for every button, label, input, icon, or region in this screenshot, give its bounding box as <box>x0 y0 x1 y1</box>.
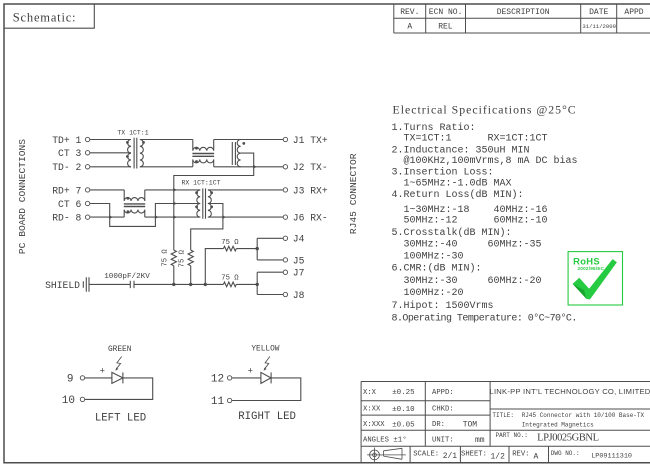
wire L2 to T3 top <box>145 189 200 191</box>
wire D1 cathode loop to pin10 <box>85 378 153 400</box>
svg-text:DWG NO.:: DWG NO.: <box>551 450 580 457</box>
svg-text:Schematic:: Schematic: <box>13 10 77 24</box>
svg-text:75 Ω: 75 Ω <box>179 249 187 267</box>
svg-text:RD+ 7: RD+ 7 <box>52 185 81 196</box>
transformer T3 (RX 1CT:1CT) <box>195 188 213 218</box>
pin 8 (RD-) <box>52 213 90 224</box>
pin J8 <box>283 290 304 301</box>
projection symbol <box>367 448 406 463</box>
svg-text:1~65MHz:-1.0dB MAX: 1~65MHz:-1.0dB MAX <box>404 178 512 190</box>
svg-text:J5: J5 <box>293 255 305 266</box>
svg-text:4.Return Loss(dB MIN):: 4.Return Loss(dB MIN): <box>392 189 524 201</box>
crossover CT wire over R1 net <box>173 202 176 206</box>
RoHS logo <box>568 252 622 305</box>
pin J3 <box>283 185 328 196</box>
svg-text:YELLOW: YELLOW <box>251 345 279 353</box>
svg-text:LINK-PP INT’L TECHNOLOGY CO, L: LINK-PP INT’L TECHNOLOGY CO, LIMITED <box>489 387 650 396</box>
svg-text:6.CMR:(dB MIN):: 6.CMR:(dB MIN): <box>392 263 482 275</box>
wire R3 to J4/J5 fork <box>236 248 257 250</box>
D1 emission arrow <box>115 357 121 371</box>
svg-text:±0.05: ±0.05 <box>392 421 415 429</box>
svg-text:9: 9 <box>67 374 74 386</box>
svg-text:31/11/2009: 31/11/2009 <box>582 23 616 30</box>
svg-text:X:X: X:X <box>363 389 377 397</box>
svg-text:GREEN: GREEN <box>108 346 132 354</box>
crossover bottom wire over pin6 riser <box>155 215 158 219</box>
svg-text:J4: J4 <box>293 234 305 245</box>
svg-text:SCALE:: SCALE: <box>413 451 439 459</box>
wire pin12 to D2 anode <box>232 377 261 379</box>
svg-text:A: A <box>407 23 412 32</box>
svg-text:75 Ω: 75 Ω <box>221 239 239 247</box>
wire shield net <box>134 283 223 285</box>
svg-text:DR:: DR: <box>432 421 445 429</box>
svg-text:+: + <box>248 366 253 376</box>
wire fork to J4 and J5 <box>257 238 283 260</box>
resistor R1 75ohm <box>171 250 176 266</box>
wire fork to J7 and J8 <box>257 272 283 294</box>
svg-text:100MHz:-20: 100MHz:-20 <box>404 288 464 299</box>
svg-text:J6 RX-: J6 RX- <box>293 213 328 224</box>
svg-text:30MHz:-30 60MHz:-20: 30MHz:-30 60MHz:-20 <box>404 276 542 287</box>
wire pin6 jog to T3 center tap <box>90 204 200 227</box>
wire pin1 to T1 <box>90 139 131 141</box>
svg-text:1000pF/2KV: 1000pF/2KV <box>104 273 150 281</box>
svg-text:2002/95/EC: 2002/95/EC <box>578 266 605 271</box>
wire pin3 to T1 center tap <box>90 152 131 154</box>
svg-text:DESCRIPTION: DESCRIPTION <box>497 8 550 17</box>
pin J5 <box>283 255 304 266</box>
svg-text:A: A <box>534 452 539 461</box>
svg-text:DATE: DATE <box>589 8 608 17</box>
crossover T2-CT over J2 wire <box>253 165 256 169</box>
pin J4 <box>283 234 304 245</box>
resistor R3 75ohm <box>223 246 236 251</box>
svg-text:50MHz:-12 60MHz:-10: 50MHz:-12 60MHz:-10 <box>404 216 548 227</box>
svg-text:SHIELD: SHIELD <box>45 280 80 291</box>
pin 3 (CT) <box>58 148 90 159</box>
svg-text:TD- 2: TD- 2 <box>52 162 81 173</box>
common-mode choke L1 (TX) <box>192 140 214 167</box>
svg-text:J2 TX-: J2 TX- <box>293 162 328 173</box>
junction fork J7/J8 <box>256 283 259 286</box>
wire L1 to J1 (TX+ net) <box>214 139 284 141</box>
pin 1 (TD+) <box>52 135 90 146</box>
wire pin9 to D1 anode <box>85 377 112 379</box>
choke T2 phase dot <box>242 142 245 145</box>
pin J2 <box>283 162 327 173</box>
svg-text:REV:: REV: <box>512 451 529 459</box>
LED D1 (green) <box>112 372 123 383</box>
electrical specifications text <box>392 103 578 325</box>
pin J1 <box>283 135 328 146</box>
wire pin7 to L2 <box>90 189 124 191</box>
wire branch up to R3 <box>205 249 223 285</box>
svg-text:±0.25: ±0.25 <box>392 389 415 397</box>
svg-text:TITLE:: TITLE: <box>492 412 514 419</box>
pin 6 (CT) <box>58 199 90 210</box>
pin 9 <box>67 374 85 386</box>
junction R2/shield <box>189 283 192 286</box>
wire pin2 to T1 <box>90 166 131 168</box>
shield terminal symbol <box>83 277 89 291</box>
svg-text:1~30MHz:-18 40MHz:-16: 1~30MHz:-18 40MHz:-16 <box>404 205 548 216</box>
svg-text:@100KHz,100mVrms,8 mA DC bias: @100KHz,100mVrms,8 mA DC bias <box>404 155 578 167</box>
wire T3 to J6 (RX- net) <box>208 216 283 218</box>
crossover J6 wire over T3-CT <box>222 215 225 219</box>
svg-text:75 Ω: 75 Ω <box>221 275 239 283</box>
wire R1 to shield net <box>173 266 175 285</box>
svg-text:J3 RX+: J3 RX+ <box>293 185 328 196</box>
wire T2 center tap to R1 <box>174 153 254 250</box>
svg-text:5.Crosstalk(dB MIN):: 5.Crosstalk(dB MIN): <box>392 227 512 239</box>
svg-text:J1 TX+: J1 TX+ <box>293 135 328 146</box>
Schematic title box <box>4 4 94 28</box>
crossover top wire over R1 net <box>173 188 176 192</box>
svg-text:LP09111310: LP09111310 <box>591 453 632 461</box>
svg-text:SHEET:: SHEET: <box>461 451 487 459</box>
wire T3 to J3 (RX+ net) <box>208 189 283 191</box>
svg-text:ECN NO.: ECN NO. <box>429 8 463 17</box>
svg-text:LEFT LED: LEFT LED <box>95 412 146 424</box>
capacitor C1 1000pF/2KV <box>130 281 134 288</box>
wire pin8 to L2 <box>90 216 124 218</box>
wire R4 to J7/J8 fork <box>236 283 257 285</box>
svg-text:X:XXX: X:XXX <box>363 421 385 429</box>
svg-text:1/2: 1/2 <box>491 452 506 461</box>
svg-text:TX=1CT:1 RX=1CT:1CT: TX=1CT:1 RX=1CT:1CT <box>404 134 548 145</box>
svg-text:ANGLES: ANGLES <box>363 437 389 445</box>
wire R2 to shield net <box>190 266 192 285</box>
wire L1 to J2 (TX- net) <box>214 166 284 168</box>
resistor R2 75ohm <box>188 250 193 266</box>
D2 emission arrow <box>264 357 270 371</box>
svg-text:100MHz:-30: 100MHz:-30 <box>404 252 464 263</box>
svg-text:2.Inductance: 350uH MIN: 2.Inductance: 350uH MIN <box>392 145 530 157</box>
svg-text:10: 10 <box>62 395 75 407</box>
svg-text:APPD:: APPD: <box>432 389 454 397</box>
pin 11 <box>211 396 232 408</box>
svg-text:11: 11 <box>211 396 225 408</box>
svg-text:CHKD:: CHKD: <box>432 406 454 414</box>
svg-text:APPD: APPD <box>624 8 643 17</box>
svg-text:REL: REL <box>438 23 453 32</box>
choke T2 core <box>232 142 235 165</box>
svg-text:3.Insertion Loss:: 3.Insertion Loss: <box>392 167 494 179</box>
resistor R4 75ohm <box>223 282 236 287</box>
svg-text:±1°: ±1° <box>393 436 407 445</box>
svg-text:Electrical Specifications @25°: Electrical Specifications @25°C <box>393 103 577 117</box>
svg-text:7.Hipot: 1500Vrms: 7.Hipot: 1500Vrms <box>392 300 494 312</box>
crossover bottom wire over R1 net <box>173 215 176 219</box>
wire T1 to L1 bottom <box>140 166 193 168</box>
svg-text:8.Operating Temperature: 0°C~7: 8.Operating Temperature: 0°C~70°C. <box>392 313 577 325</box>
revision table <box>394 4 650 33</box>
wire shield to C1 <box>89 283 130 285</box>
junction R1/shield <box>172 283 175 286</box>
svg-text:X:XX: X:XX <box>363 406 381 414</box>
svg-text:CT 6: CT 6 <box>58 199 81 210</box>
pin 2 (TD-) <box>52 162 90 173</box>
wire L2 to T3 bottom <box>145 216 200 218</box>
wire T3 center tap to R2 <box>191 204 223 251</box>
svg-text:2/1: 2/1 <box>443 452 458 461</box>
pin J7 <box>283 268 304 279</box>
junction fork J4/J5 <box>256 247 259 250</box>
LED D2 (yellow) <box>261 372 271 383</box>
choke T2 winding <box>237 140 240 167</box>
title block grid <box>361 382 650 463</box>
crossover pin8 wire over pin6 jog <box>109 215 112 219</box>
svg-text:RJ45 CONNECTOR: RJ45 CONNECTOR <box>348 153 359 234</box>
pin J6 <box>283 213 327 224</box>
svg-text:mm: mm <box>475 436 485 445</box>
svg-text:TD+ 1: TD+ 1 <box>52 135 81 146</box>
svg-text:RX 1CT:1CT: RX 1CT:1CT <box>181 180 220 187</box>
svg-text:J8: J8 <box>293 290 305 301</box>
svg-text:RJ45 Connector with 10/100 Bas: RJ45 Connector with 10/100 Base-TX <box>522 412 645 419</box>
svg-text:TX 1CT:1: TX 1CT:1 <box>117 130 148 137</box>
svg-text:75 Ω: 75 Ω <box>162 249 170 267</box>
svg-text:1.Turns Ratio:: 1.Turns Ratio: <box>392 122 476 134</box>
svg-text:PC BOARD CONNECTIONS: PC BOARD CONNECTIONS <box>17 139 28 254</box>
svg-text:Integrated Magnetics: Integrated Magnetics <box>522 421 594 428</box>
svg-text:RD- 8: RD- 8 <box>52 213 81 224</box>
transformer T1 (TX 1CT:1) <box>126 138 145 169</box>
pin 7 (RD+) <box>52 185 90 196</box>
wire D2 cathode loop to pin11 <box>232 378 301 401</box>
svg-text:12: 12 <box>211 374 224 386</box>
pin 12 <box>211 374 232 386</box>
svg-text:UNIT:: UNIT: <box>432 437 454 445</box>
junction branch J4/J5 <box>204 283 207 286</box>
svg-text:LPJ0025GBNL: LPJ0025GBNL <box>537 433 599 444</box>
svg-text:±0.10: ±0.10 <box>392 406 415 414</box>
pin 10 <box>62 395 85 407</box>
svg-text:PART NO.:: PART NO.: <box>496 432 528 439</box>
svg-text:TOM: TOM <box>463 421 478 430</box>
svg-text:RIGHT LED: RIGHT LED <box>238 411 296 423</box>
svg-text:J7: J7 <box>293 268 305 279</box>
wire T1 to L1 top <box>140 139 193 141</box>
svg-text:30MHz:-40 60MHz:-35: 30MHz:-40 60MHz:-35 <box>404 240 542 251</box>
svg-text:REV.: REV. <box>400 8 419 17</box>
svg-text:+: + <box>100 366 105 376</box>
svg-text:RoHS: RoHS <box>573 256 600 267</box>
svg-text:CT 3: CT 3 <box>58 148 81 159</box>
common-mode choke L2 (RX) <box>124 190 145 217</box>
